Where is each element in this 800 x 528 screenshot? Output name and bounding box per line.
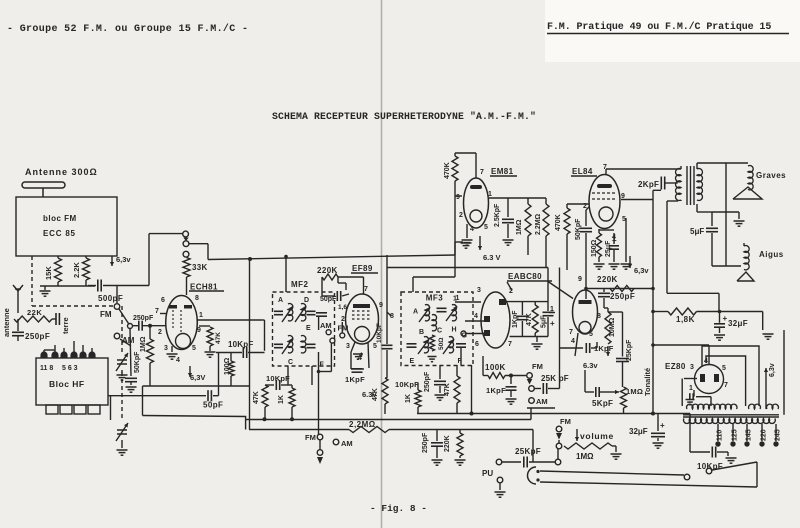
svg-text:220K: 220K [597, 275, 618, 284]
svg-text:EL84: EL84 [572, 167, 593, 176]
svg-text:5: 5 [589, 331, 593, 338]
svg-text:47K: 47K [444, 383, 451, 396]
svg-text:C: C [288, 359, 293, 366]
svg-text:50pF: 50pF [320, 296, 337, 303]
svg-text:6,3v: 6,3v [116, 255, 131, 264]
svg-text:volume: volume [580, 431, 614, 441]
svg-text:AM: AM [341, 439, 353, 448]
svg-text:FM: FM [532, 362, 543, 371]
svg-text:+: + [723, 314, 728, 323]
svg-text:SCHEMA RECEPTEUR SUPERHETERODY: SCHEMA RECEPTEUR SUPERHETERODYNE "A.M.-F… [272, 111, 536, 122]
svg-text:3: 3 [477, 287, 481, 294]
svg-text:220K: 220K [444, 435, 451, 452]
svg-text:1KpF: 1KpF [345, 375, 365, 384]
svg-text:6,3V: 6,3V [190, 373, 205, 382]
svg-text:25KpF: 25KpF [626, 339, 633, 361]
svg-text:FM: FM [100, 310, 112, 319]
svg-text:D: D [304, 297, 309, 304]
svg-text:H: H [452, 327, 457, 334]
svg-text:EABC80: EABC80 [508, 272, 542, 281]
svg-text:MF2: MF2 [291, 280, 309, 289]
svg-text:4: 4 [571, 338, 575, 345]
svg-text:10KpF: 10KpF [395, 380, 419, 389]
svg-text:E: E [306, 325, 311, 332]
svg-text:145: 145 [746, 429, 753, 441]
svg-text:2: 2 [459, 212, 463, 219]
svg-text:1: 1 [199, 312, 203, 319]
svg-text:3: 3 [346, 343, 350, 350]
svg-text:FM: FM [305, 433, 316, 442]
svg-text:Graves: Graves [756, 171, 786, 180]
svg-text:50Ω: 50Ω [438, 338, 445, 350]
svg-text:- Groupe 52 F.M. ou Groupe 1: - Groupe 52 F.M. ou Groupe 15 F.M./C - [7, 23, 248, 35]
svg-text:C: C [437, 328, 442, 335]
svg-text:1: 1 [689, 385, 693, 392]
svg-text:9: 9 [456, 194, 460, 201]
svg-text:Antenne 300Ω: Antenne 300Ω [25, 167, 98, 177]
svg-text:F: F [320, 362, 325, 369]
svg-text:220K: 220K [317, 266, 338, 275]
svg-text:6,3v: 6,3v [769, 363, 776, 377]
svg-text:250pF: 250pF [133, 315, 154, 322]
svg-text:2: 2 [341, 316, 345, 323]
svg-text:8: 8 [195, 295, 199, 302]
svg-text:F: F [458, 358, 463, 365]
svg-text:2: 2 [158, 329, 162, 336]
svg-text:25K pF: 25K pF [541, 374, 569, 383]
svg-text:220: 220 [761, 429, 768, 441]
svg-text:1,6: 1,6 [338, 304, 347, 311]
svg-text:5 6 3: 5 6 3 [62, 365, 78, 372]
svg-text:6: 6 [475, 341, 479, 348]
svg-text:6.3v: 6.3v [583, 361, 598, 370]
svg-text:22K: 22K [27, 308, 42, 317]
svg-text:Tonalité: Tonalité [643, 368, 652, 396]
svg-text:5: 5 [484, 224, 488, 231]
svg-text:1MΩ: 1MΩ [516, 219, 523, 235]
svg-text:7: 7 [155, 308, 159, 315]
svg-text:150Ω: 150Ω [591, 239, 598, 257]
svg-text:7: 7 [724, 382, 728, 389]
svg-text:47K: 47K [253, 391, 260, 404]
svg-text:6,3v: 6,3v [634, 266, 649, 275]
svg-text:MF3: MF3 [426, 294, 444, 303]
svg-text:1MΩ: 1MΩ [626, 387, 643, 396]
svg-text:2.5KpF: 2.5KpF [494, 203, 501, 227]
svg-text:5μF: 5μF [541, 315, 548, 328]
svg-text:11 8: 11 8 [40, 365, 53, 372]
svg-text:8: 8 [390, 313, 394, 320]
svg-text:25KpF: 25KpF [515, 447, 541, 456]
svg-text:47K: 47K [372, 388, 379, 401]
svg-text:EF89: EF89 [352, 264, 373, 273]
svg-text:2.2MΩ: 2.2MΩ [535, 213, 542, 235]
svg-text:1MΩ: 1MΩ [576, 452, 594, 461]
svg-text:1K: 1K [278, 395, 285, 404]
svg-text:5μF: 5μF [690, 227, 704, 236]
svg-text:B: B [419, 329, 424, 336]
svg-text:32μF: 32μF [728, 319, 748, 328]
svg-text:AM: AM [536, 397, 548, 406]
svg-text:250pF: 250pF [25, 332, 50, 341]
svg-text:5: 5 [373, 343, 377, 350]
svg-text:A: A [413, 309, 418, 316]
svg-text:50pF: 50pF [203, 401, 223, 410]
svg-text:bloc FM: bloc FM [43, 214, 77, 223]
svg-text:7: 7 [364, 286, 368, 293]
svg-text:245: 245 [775, 429, 782, 441]
svg-text:- Fig. 8 -: - Fig. 8 - [370, 503, 427, 514]
svg-text:A: A [278, 297, 283, 304]
svg-text:5KpF: 5KpF [592, 399, 613, 408]
svg-text:4: 4 [176, 357, 180, 364]
svg-text:110: 110 [717, 430, 724, 441]
svg-text:1KpF: 1KpF [512, 310, 519, 328]
svg-text:9: 9 [379, 302, 383, 309]
svg-text:3: 3 [690, 364, 694, 371]
svg-text:32μF: 32μF [629, 427, 648, 436]
svg-text:1K: 1K [405, 394, 412, 403]
svg-text:33K: 33K [192, 263, 208, 272]
svg-text:5: 5 [192, 345, 196, 352]
svg-text:Bloc HF: Bloc HF [49, 379, 85, 389]
svg-text:EM81: EM81 [491, 167, 514, 176]
svg-text:F.M. Pratique 49 ou F.M./C P: F.M. Pratique 49 ou F.M./C Pratique 15 [547, 21, 771, 33]
svg-text:2.2K: 2.2K [72, 262, 81, 278]
svg-text:+: + [660, 421, 665, 430]
svg-text:10KpF: 10KpF [376, 323, 383, 343]
svg-text:ECC 85: ECC 85 [43, 229, 76, 238]
svg-text:AM: AM [320, 321, 332, 330]
svg-text:5: 5 [722, 365, 726, 372]
svg-text:PU: PU [482, 469, 493, 478]
svg-text:terre: terre [61, 317, 70, 334]
svg-text:1: 1 [488, 191, 492, 198]
svg-text:10KpF: 10KpF [266, 374, 290, 383]
svg-text:E: E [410, 358, 415, 365]
svg-text:100K: 100K [485, 363, 506, 372]
svg-text:47K: 47K [215, 332, 222, 344]
svg-text:500pF: 500pF [98, 294, 123, 303]
svg-text:250pF: 250pF [424, 371, 431, 392]
svg-text:470K: 470K [444, 162, 451, 179]
svg-text:1,8K: 1,8K [676, 315, 695, 324]
svg-text:1KpF: 1KpF [486, 386, 506, 395]
svg-text:Aigus: Aigus [759, 250, 784, 259]
svg-text:6.3 V: 6.3 V [483, 253, 501, 262]
svg-text:2: 2 [509, 288, 513, 295]
svg-text:6: 6 [161, 297, 165, 304]
svg-text:250pF: 250pF [422, 432, 429, 453]
svg-text:+: + [550, 319, 555, 328]
svg-text:antenne: antenne [2, 308, 11, 337]
svg-text:2KpF: 2KpF [638, 180, 659, 189]
svg-text:7: 7 [569, 329, 573, 336]
svg-text:50KpF: 50KpF [134, 351, 141, 373]
svg-text:EZ80: EZ80 [665, 362, 686, 371]
svg-text:4: 4 [359, 352, 363, 359]
svg-text:4: 4 [474, 313, 478, 320]
svg-text:8: 8 [597, 313, 601, 320]
svg-text:10KpF: 10KpF [697, 462, 723, 471]
svg-text:7: 7 [508, 341, 512, 348]
svg-text:7: 7 [480, 169, 484, 176]
svg-text:4: 4 [470, 226, 474, 233]
svg-text:ECH81: ECH81 [190, 283, 218, 292]
svg-text:9: 9 [197, 327, 201, 334]
svg-text:3: 3 [164, 345, 168, 352]
svg-text:125: 125 [732, 429, 739, 441]
svg-text:9: 9 [578, 276, 582, 283]
svg-text:15K: 15K [44, 266, 53, 280]
svg-text:1: 1 [456, 295, 460, 302]
svg-text:470K: 470K [555, 214, 562, 231]
svg-text:250pF: 250pF [610, 292, 635, 301]
svg-text:FM: FM [560, 417, 571, 426]
